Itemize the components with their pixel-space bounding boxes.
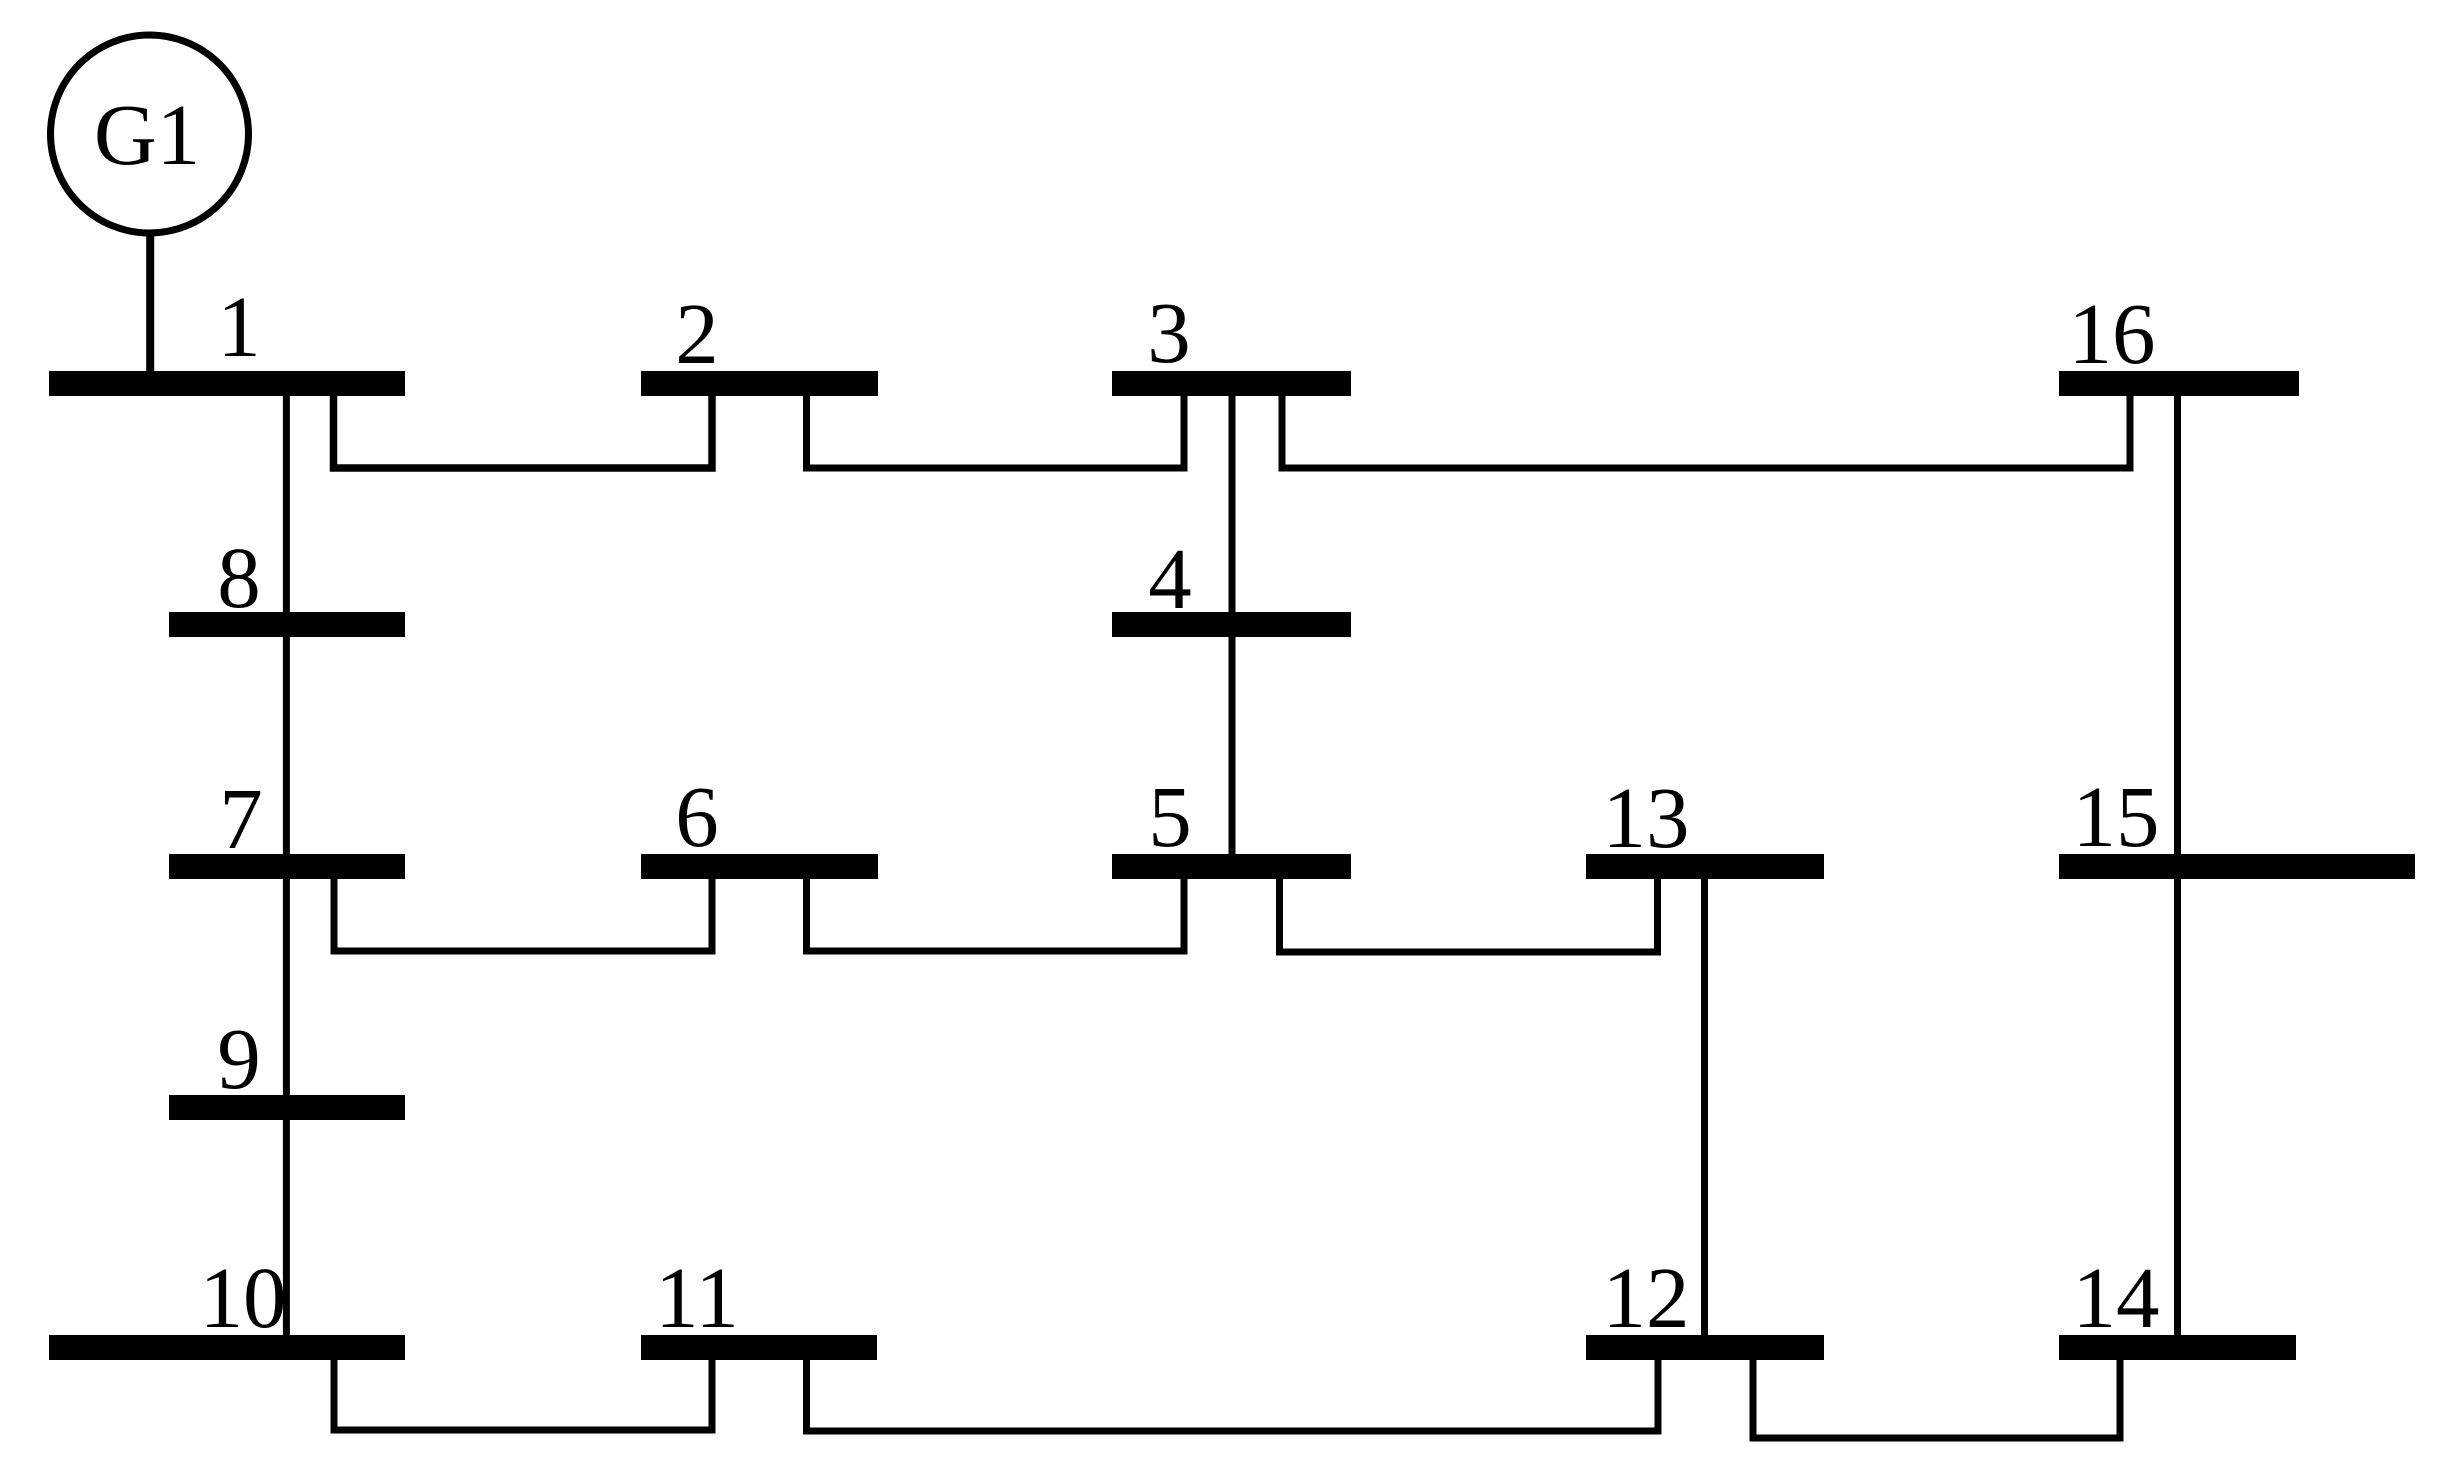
svg-text:13: 13 xyxy=(1603,769,1690,866)
svg-text:5: 5 xyxy=(1148,768,1192,865)
svg-text:8: 8 xyxy=(217,529,261,626)
svg-text:14: 14 xyxy=(2073,1249,2160,1346)
svg-text:G1: G1 xyxy=(94,86,200,183)
svg-text:11: 11 xyxy=(655,1249,739,1346)
svg-text:2: 2 xyxy=(675,285,719,382)
svg-text:15: 15 xyxy=(2073,768,2160,865)
svg-text:10: 10 xyxy=(200,1249,287,1346)
svg-text:1: 1 xyxy=(217,278,261,375)
svg-text:4: 4 xyxy=(1148,530,1192,627)
svg-text:3: 3 xyxy=(1147,284,1191,381)
svg-text:9: 9 xyxy=(217,1010,261,1107)
svg-text:12: 12 xyxy=(1603,1249,1690,1346)
svg-text:16: 16 xyxy=(2069,285,2156,382)
svg-text:6: 6 xyxy=(675,768,719,865)
svg-text:7: 7 xyxy=(219,770,263,867)
